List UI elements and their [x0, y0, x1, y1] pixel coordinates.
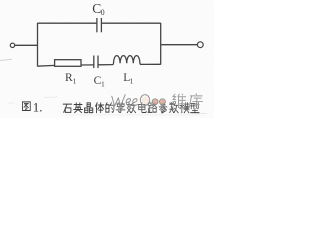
svg-text:1: 1 [101, 80, 105, 89]
svg-text:1: 1 [130, 77, 134, 86]
svg-text:0: 0 [101, 8, 105, 17]
svg-text:1.: 1. [33, 99, 43, 114]
svg-text:1: 1 [73, 77, 77, 86]
